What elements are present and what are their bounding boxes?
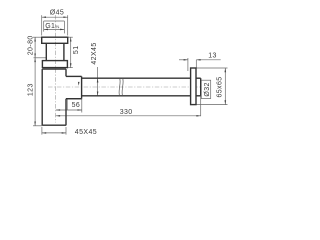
svg-text:65x65: 65x65 — [217, 76, 224, 97]
svg-text:123: 123 — [28, 83, 35, 96]
svg-text:330: 330 — [120, 109, 133, 116]
svg-text:Ø45: Ø45 — [50, 9, 64, 16]
svg-text:Ø32: Ø32 — [204, 82, 211, 96]
svg-text:20-80: 20-80 — [28, 35, 35, 55]
svg-text:13: 13 — [208, 52, 217, 59]
svg-text:56: 56 — [72, 102, 81, 109]
svg-text:G1¼: G1¼ — [45, 23, 59, 30]
svg-text:42X45: 42X45 — [91, 42, 98, 64]
svg-text:51: 51 — [73, 46, 80, 55]
svg-text:45X45: 45X45 — [75, 129, 97, 136]
